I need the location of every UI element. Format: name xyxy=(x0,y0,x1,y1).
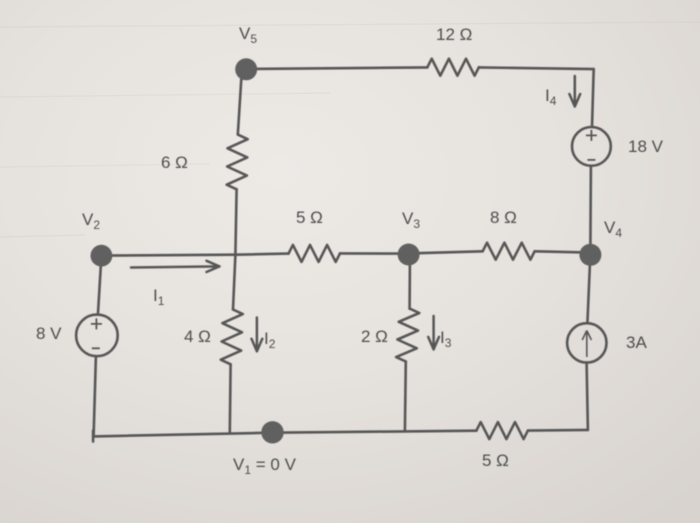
node V1 xyxy=(261,421,283,443)
svg-text:2 Ω: 2 Ω xyxy=(361,327,388,346)
faint ruled line 2 xyxy=(0,93,330,97)
svg-text:3A: 3A xyxy=(626,333,647,352)
resistor 8ohm xyxy=(483,243,535,260)
wire middle: node V2 to 5-ohm resistor xyxy=(101,254,288,256)
svg-text:5 Ω: 5 Ω xyxy=(296,208,323,227)
resistor 12ohm xyxy=(427,59,479,76)
resistor 5ohm bottom xyxy=(476,422,528,439)
plus sign of 18V source xyxy=(586,130,597,141)
svg-text:18 V: 18 V xyxy=(628,137,664,156)
arrow I2 xyxy=(252,318,263,352)
svg-text:5 Ω: 5 Ω xyxy=(482,451,509,470)
arrow inside 3A source xyxy=(582,331,591,358)
node V2 xyxy=(91,245,113,267)
resistor 4ohm xyxy=(221,310,243,365)
wire middle: 5-ohm to node V3 xyxy=(340,252,409,255)
node V5 xyxy=(235,58,257,80)
wire: 6-ohm down through crossing to 4-ohm resistor xyxy=(233,189,237,309)
node V3 xyxy=(398,244,420,266)
arrow I1 xyxy=(131,261,220,272)
voltage source 8V xyxy=(76,315,118,357)
voltage source 18V xyxy=(572,127,611,166)
plus sign of 8V source xyxy=(91,318,102,329)
current source 3A xyxy=(567,323,606,362)
minus sign of 18V source xyxy=(587,159,595,161)
resistor 2ohm xyxy=(396,309,419,362)
minus sign of 8V source xyxy=(92,347,100,349)
arrow I4 xyxy=(569,76,580,107)
resistor 5ohm middle xyxy=(289,245,340,262)
wire bottom: right corner to 5-ohm resistor xyxy=(528,429,588,432)
svg-text:8 V: 8 V xyxy=(36,324,62,343)
svg-text:6 Ω: 6 Ω xyxy=(161,153,188,172)
wire bottom: 5-ohm resistor to left end xyxy=(93,431,476,437)
wire: 2-ohm down to bottom wire xyxy=(404,362,407,432)
wire node V4 down to 3A source xyxy=(587,265,590,324)
wire right down to 18V source xyxy=(592,69,594,127)
faint ruled line 1 xyxy=(0,22,700,27)
node V4 xyxy=(579,244,601,266)
wire top right: resistor to top-right corner xyxy=(479,67,594,69)
arrow I3 xyxy=(428,316,439,349)
resistor 6ohm xyxy=(227,135,248,190)
wire 3A to bottom-right corner xyxy=(587,363,588,430)
wire top: node V5 to 12-ohm resistor xyxy=(246,67,427,69)
wire: 4-ohm down to bottom wire xyxy=(229,364,232,432)
wire middle: 8-ohm to node V4 xyxy=(535,251,591,252)
svg-text:V1 = 0 V: V1 = 0 V xyxy=(233,455,297,477)
wire left up to 8V source xyxy=(94,357,96,436)
wire middle: node V3 to 8-ohm resistor xyxy=(409,251,483,253)
faint ruled line 4 xyxy=(0,235,85,237)
svg-text:4 Ω: 4 Ω xyxy=(184,327,211,346)
left end stub xyxy=(92,431,95,442)
svg-text:12 Ω: 12 Ω xyxy=(436,25,472,44)
wire 18V to node V4 xyxy=(589,166,592,244)
wire: node V3 down to 2-ohm resistor xyxy=(408,265,411,309)
svg-text:8 Ω: 8 Ω xyxy=(490,208,517,227)
wire 8V source up to node V2 xyxy=(98,256,102,315)
wire branch: node V5 down to 6-ohm resistor xyxy=(238,76,242,135)
faint ruled line 3 xyxy=(0,164,210,167)
